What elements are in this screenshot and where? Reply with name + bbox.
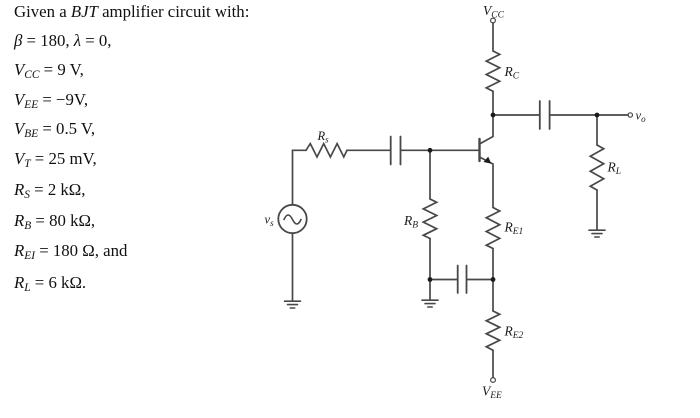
wire collector node to C3: [493, 114, 539, 116]
wire RE2 to Vee terminal: [492, 350, 494, 377]
node: RB bottom: [428, 277, 433, 282]
wire vs to ground: [292, 233, 294, 301]
ground (vs): [285, 301, 301, 308]
wire Vcc to Rc: [492, 23, 494, 51]
ground (RB): [422, 300, 438, 307]
svg-text:RB: RB: [403, 213, 418, 231]
problem statement text: [14, 2, 249, 22]
Vee terminal circle: [491, 378, 496, 383]
svg-text:RE1: RE1: [504, 220, 524, 238]
wire RL to ground: [596, 190, 598, 230]
wire bottom node to ground: [429, 280, 431, 301]
sine wave: [284, 215, 301, 224]
resistor RC: [486, 51, 499, 91]
ground (RL): [589, 230, 605, 237]
svg-text:Rs: Rs: [317, 129, 330, 145]
wire RB to bottom node: [429, 239, 431, 280]
node: output: [595, 113, 600, 118]
resistor RB: [423, 199, 436, 239]
base wire from C1 node to base: [430, 149, 480, 151]
wire Rc to collector node: [492, 91, 494, 115]
Vcc terminal circle: [491, 18, 496, 23]
transistor emitter lead: [480, 157, 494, 208]
svg-text:vs: vs: [265, 213, 275, 229]
svg-text:vo: vo: [636, 109, 647, 125]
capacitor C2: [457, 266, 459, 294]
wire RE1 to emitter node: [492, 249, 494, 280]
wire output node to vo terminal: [597, 114, 628, 116]
svg-text:VEE: VEE: [482, 384, 502, 402]
resistor RL: [590, 145, 603, 190]
svg-text:RL: RL: [607, 160, 622, 178]
node: emitter bottom: [491, 277, 496, 282]
svg-text:VCC: VCC: [483, 3, 505, 21]
wire Rs to C1: [347, 149, 390, 151]
wire node to RL: [596, 115, 598, 145]
resistor RE2: [486, 311, 499, 350]
capacitor C3: [539, 101, 541, 129]
wire C1 to base node: [401, 149, 430, 151]
vo terminal circle: [628, 113, 632, 117]
svg-text:RC: RC: [504, 64, 520, 82]
node: collector: [491, 113, 496, 118]
wire base node down to RB: [429, 150, 431, 199]
wire RB node to C2: [430, 279, 457, 281]
resistor RE1: [486, 208, 499, 249]
emitter arrowhead: [484, 157, 492, 164]
resistor Rs: [306, 144, 347, 157]
transistor Q1 base bar: [478, 139, 480, 161]
wire C2 to emitter node: [467, 279, 493, 281]
source vs circle: [278, 205, 306, 233]
wire vs to corner and Rs: [293, 150, 307, 205]
wire emitter node to RE2: [492, 280, 494, 312]
wire C3 to output node: [550, 114, 597, 116]
svg-text:RE2: RE2: [504, 324, 524, 342]
node: base: [428, 148, 433, 153]
transistor collector lead: [480, 115, 494, 144]
capacitor C1: [390, 137, 392, 165]
